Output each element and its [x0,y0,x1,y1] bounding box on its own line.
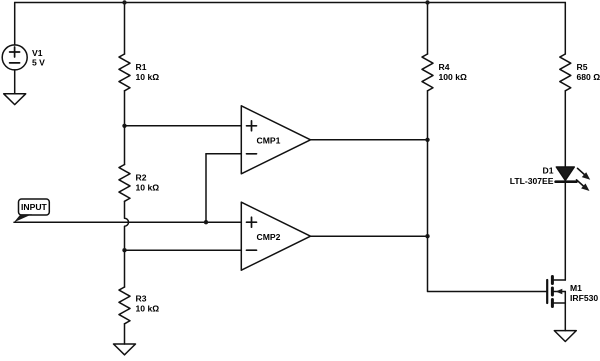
junction: INPUT / CMP1 feedback branch [204,220,208,224]
wire: R5 bottom to LED anode [564,91,566,167]
junction: R2/R3 node [122,248,126,252]
label INPUT text [21,202,48,212]
svg-text:LTL-307EE: LTL-307EE [510,176,554,186]
wire: R3 top lead [124,250,126,287]
label M1 name and value [570,283,598,303]
wire: R4 top lead [427,3,429,55]
svg-text:10 kΩ: 10 kΩ [136,183,160,193]
wire: M1 source to ground [564,303,566,331]
op-amp CMP1 [241,106,310,174]
svg-text:R4: R4 [439,62,450,72]
wire: R2 bottom lead with hop over INPUT wire [125,201,129,250]
junction: rail / R4 [425,0,429,4]
wire: R1/R2 node to CMP1 + input [125,125,242,127]
op-amp CMP2 [241,202,310,270]
resistor R3 [119,287,130,324]
junction: CMP2 output / pull-up rail [425,234,429,238]
wire: R1 bottom lead [124,91,126,126]
ground: below M1 [554,331,576,342]
svg-text:CMP2: CMP2 [257,232,281,242]
wire: R5 top lead [564,3,566,55]
label CMP1 [257,136,281,146]
svg-text:D1: D1 [543,165,554,175]
svg-text:R5: R5 [577,62,588,72]
label R2 name and value [136,173,160,193]
resistor R5 [560,54,571,91]
label R4 name and value [439,62,468,82]
label D1 name and value [510,165,554,186]
junction: CMP1 output / pull-up rail [425,138,429,142]
svg-text:INPUT: INPUT [21,202,48,212]
wire: divider top lead (rail to R1) [124,3,126,55]
wire: top supply rail [15,2,566,4]
label R5 name and value [577,62,600,82]
resistor R4 [422,54,433,91]
svg-text:100 kΩ: 100 kΩ [439,72,468,82]
label R3 name and value [136,294,160,314]
svg-text:CMP1: CMP1 [257,136,281,146]
label V1 name and value [32,48,45,67]
ground: below V1 [4,94,26,105]
voltage source V1 [2,45,27,70]
transistor M1 (N-MOSFET) [547,277,565,307]
svg-text:5 V: 5 V [32,58,45,68]
wire: CMP2 output [311,235,428,237]
svg-text:R2: R2 [136,173,147,183]
diode D1 LED [556,167,591,191]
wire: R4 bottom to gate corner [428,91,547,292]
svg-text:10 kΩ: 10 kΩ [136,72,160,82]
resistor R2 [119,165,130,202]
wire: branch to CMP1 - input [206,153,241,155]
svg-text:R1: R1 [136,62,147,72]
wire: V1 top lead to rail [14,3,16,46]
wire: LED cathode to M1 drain [564,183,566,280]
wire: V1 bottom lead to ground [14,70,16,94]
svg-text:R3: R3 [136,294,147,304]
wire: R2/R3 node to CMP2 - input [125,249,242,251]
label CMP2 [257,232,281,242]
wire: branch up from INPUT node [205,154,207,222]
ground: below R3 [114,344,136,355]
label R1 name and value [136,62,160,82]
svg-text:10 kΩ: 10 kΩ [136,304,160,314]
svg-text:IRF530: IRF530 [570,293,598,303]
wire: R3 bottom lead [124,324,126,344]
node INPUT flag [14,199,49,222]
junction: rail / divider [122,0,126,4]
resistor R1 [119,54,130,91]
wire: R2 top lead [124,126,126,165]
wire: INPUT to CMP2 + input [14,221,241,223]
svg-text:M1: M1 [570,283,582,293]
svg-text:680 Ω: 680 Ω [577,72,600,82]
wire: CMP1 output [311,139,428,141]
junction: R1/R2 node [122,124,126,128]
